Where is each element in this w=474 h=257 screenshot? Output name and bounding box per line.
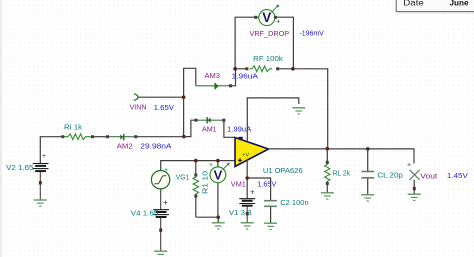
svg-text:+: +	[209, 162, 213, 169]
ground below RL	[321, 193, 334, 199]
title block box (Date / June)	[396, 0, 474, 14]
svg-text:VM1: VM1	[231, 179, 246, 188]
node junction RF left	[233, 67, 237, 71]
voltmeter VM1	[209, 161, 230, 218]
resistor R1 10 (vertical)	[193, 161, 198, 218]
wire: VG1 bottom to V4	[160, 189, 162, 210]
node junction output/RL	[326, 147, 330, 151]
wire: VRF_DROP voltmeter left lead + vertical down to RF left node	[235, 17, 259, 69]
wire: AM1 branch from rail junction to op-amp minus input	[184, 120, 235, 137]
generator VG1	[151, 167, 169, 189]
resistor RI 1k	[61, 134, 92, 140]
battery V2	[33, 153, 49, 200]
wire: junction to C2	[247, 178, 270, 200]
ground below V1	[241, 223, 254, 229]
svg-text:+: +	[163, 198, 168, 207]
svg-text:1.65V: 1.65V	[257, 179, 277, 188]
resistor RL 2k (vertical)	[325, 149, 330, 193]
svg-text:V: V	[262, 10, 271, 25]
wire: op-amp bottom supply down to V1	[246, 160, 248, 198]
wire: VINN rail down to AM2 row	[183, 97, 185, 136]
node VINN pin	[134, 94, 138, 101]
ground below C2	[264, 223, 277, 229]
svg-text:V: V	[214, 167, 223, 182]
svg-text:V2 1.65: V2 1.65	[6, 163, 33, 172]
wire: RF row between nodes	[235, 68, 293, 70]
node junction output/CL	[366, 147, 370, 151]
wire: AM3 branch from VINN rail up and over to RF left node	[184, 68, 236, 97]
ammeter AM2 (arrow on wire)	[106, 134, 137, 140]
node junction RF right	[291, 67, 295, 71]
node junction at VINN rail top	[182, 95, 186, 99]
svg-text:1.45V: 1.45V	[447, 171, 469, 180]
resistor RF 100k	[250, 66, 273, 72]
ground below VM1	[212, 217, 225, 229]
svg-text:V4 1.65: V4 1.65	[131, 208, 158, 217]
svg-text:V1 3.3: V1 3.3	[229, 208, 252, 217]
wire: output row from op-amp tip to Vout	[269, 149, 415, 164]
wire: RI row from V2 corner to rail	[40, 137, 184, 164]
node junction R1 top	[194, 159, 198, 163]
node junction VM1 bottom	[216, 215, 220, 219]
svg-text:Vout: Vout	[420, 171, 438, 180]
ground below V2	[34, 200, 47, 206]
svg-text:+: +	[42, 153, 46, 160]
svg-text:CL 20p: CL 20p	[377, 170, 403, 179]
svg-text:+V: +V	[242, 152, 249, 158]
op-amp U1 OPA626	[235, 137, 269, 167]
svg-text:1.99uA: 1.99uA	[227, 125, 252, 134]
svg-text:VINN: VINN	[130, 103, 147, 112]
output pin Vout (X)	[407, 162, 420, 194]
voltmeter VRF_DROP	[254, 5, 280, 26]
svg-text:R1 10: R1 10	[201, 171, 210, 194]
wire: bottom row R1 to VM1 ground	[196, 216, 218, 218]
svg-text:Date: Date	[403, 0, 424, 8]
ground at op-amp top supply	[292, 108, 305, 114]
svg-text:1.65V: 1.65V	[154, 103, 175, 112]
svg-text:+: +	[407, 162, 411, 169]
node junction rail/AM2/AM1	[182, 135, 186, 139]
svg-text:AM3: AM3	[205, 71, 221, 80]
ammeter AM3 (arrow on wire)	[196, 83, 232, 89]
svg-text:+: +	[164, 167, 168, 174]
ground below Vout	[408, 194, 421, 200]
wire: op-amp top supply to ground	[247, 98, 298, 142]
svg-text:VRF_DROP: VRF_DROP	[250, 29, 290, 38]
svg-text:RL 2k: RL 2k	[333, 169, 351, 178]
wire: plus input row from VG1 to op-amp	[161, 161, 235, 171]
node junction VM1 top	[216, 159, 220, 163]
capacitor C2 100n	[264, 201, 277, 223]
battery V4	[153, 198, 169, 251]
svg-text:RI 1k: RI 1k	[64, 123, 82, 132]
svg-text:June: June	[450, 0, 470, 8]
svg-text:RF 100k: RF 100k	[253, 54, 283, 63]
svg-text:-196mV: -196mV	[300, 29, 325, 38]
wire: VINN pin to rail	[138, 96, 183, 98]
capacitor CL 20p	[361, 149, 374, 195]
svg-text:+: +	[250, 188, 255, 197]
svg-text:VG1: VG1	[176, 172, 189, 181]
svg-text:29.98nA: 29.98nA	[140, 142, 172, 151]
svg-text:AM2: AM2	[117, 142, 133, 151]
ground below V4	[154, 251, 167, 254]
svg-text:+: +	[276, 19, 280, 26]
node junction supply/C2	[245, 176, 249, 180]
svg-text:AM1: AM1	[202, 125, 217, 134]
svg-text:C2 100n: C2 100n	[280, 198, 309, 207]
ground below CL	[361, 195, 374, 201]
wire: RF right node to feedback vertical	[293, 69, 327, 149]
svg-text:U1 OPA626: U1 OPA626	[263, 166, 303, 175]
ammeter AM1 (arrow on wire, pointing left)	[195, 117, 226, 123]
battery V1	[239, 188, 255, 223]
wire: VRF_DROP voltmeter right lead + vertical down to RF right node	[275, 17, 294, 69]
